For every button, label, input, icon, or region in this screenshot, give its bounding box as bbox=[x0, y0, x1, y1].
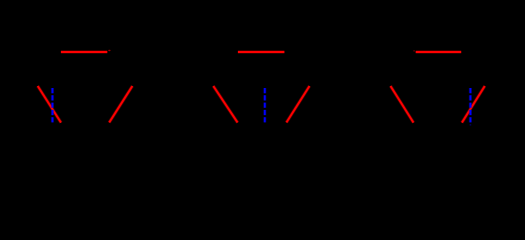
hexagon 2 top edge (red) bbox=[238, 50, 285, 53]
hexagon 1 top-right smudge bbox=[108, 50, 110, 51]
hexagon 1 top edge (red) bbox=[61, 50, 107, 53]
hexagon 3 blue dashed vertical line bbox=[469, 88, 472, 123]
hexagon 2 blue dashed vertical line bbox=[263, 88, 266, 123]
hexagon 3 blue dashed line faint tail dash bbox=[469, 124, 471, 125]
hexagon 3 top edge (red) bbox=[416, 50, 462, 53]
hexagon 2 lower-right edge (red) bbox=[286, 86, 309, 123]
hexagon 3 top-left smudge bbox=[413, 50, 415, 51]
hexagon 1 lower-left edge (red) bbox=[38, 86, 61, 123]
hexagon 2 lower-left edge (red) bbox=[213, 86, 237, 123]
hexagon 1 lower-right edge (red) bbox=[109, 86, 132, 123]
hexagon 1 blue dashed vertical line bbox=[51, 88, 54, 123]
hexagon 3 lower-right edge (red) bbox=[462, 86, 485, 123]
hexagon 3 lower-left edge (red) bbox=[391, 86, 414, 123]
